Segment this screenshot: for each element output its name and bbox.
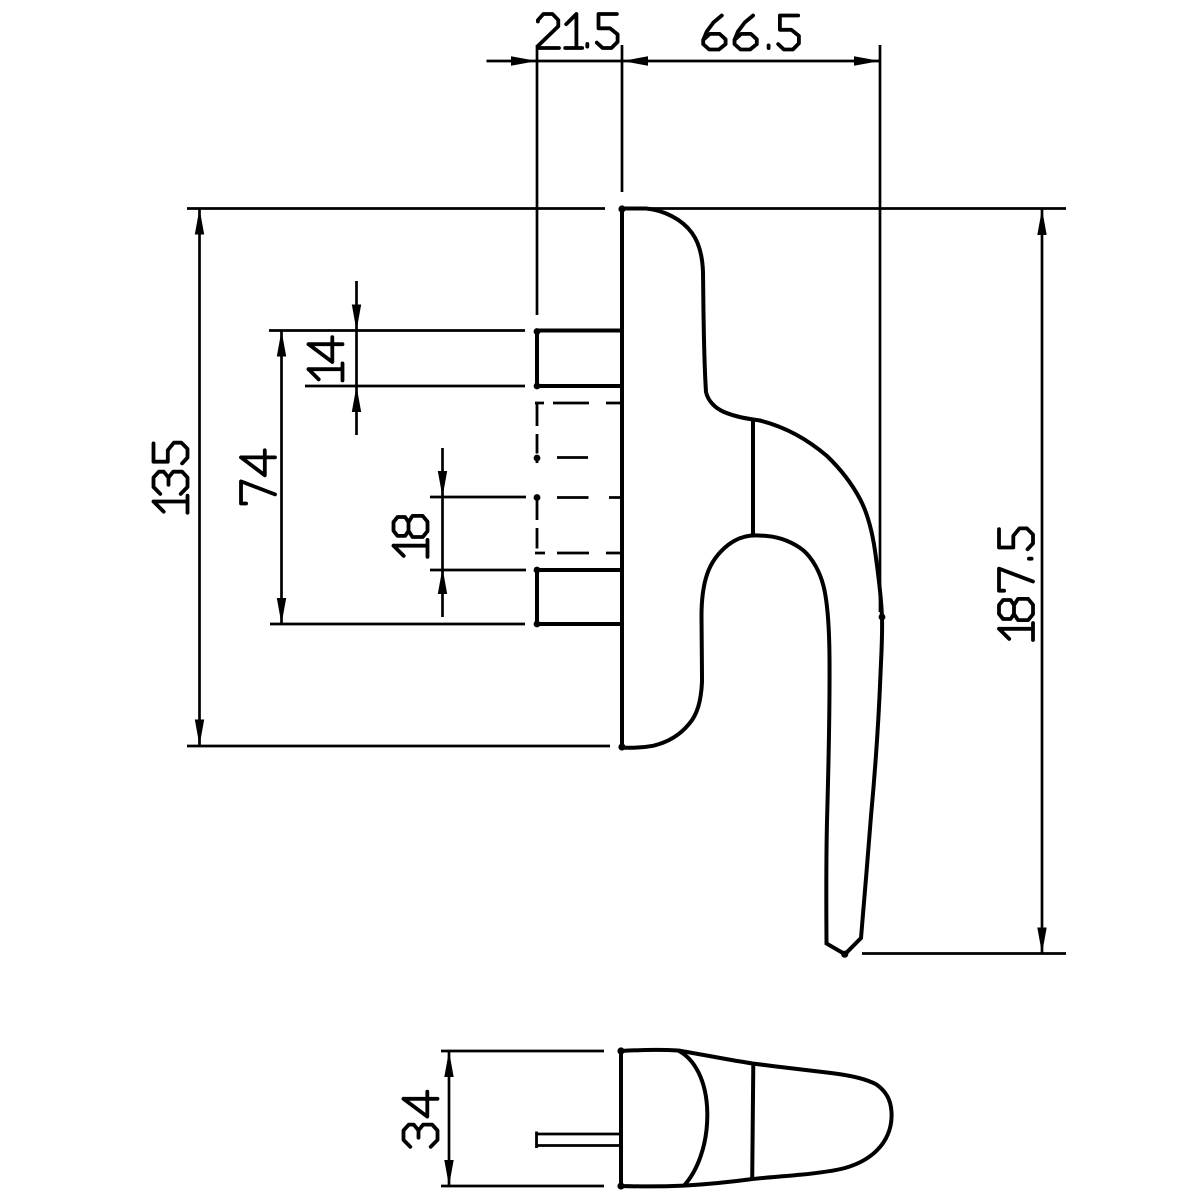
hidden dashed vertical x=537 lower [536, 458, 539, 549]
junction dot bottom view bottom [617, 1182, 624, 1189]
junction dot boss y570 [534, 567, 541, 574]
arrow 74 bottom [277, 598, 286, 624]
arrow 74 top [277, 331, 286, 357]
dimension 14 label [309, 337, 343, 380]
junction dot plate top-left [618, 205, 625, 212]
dimension 74 label [241, 450, 275, 503]
arrow 18 bottom outside [438, 568, 447, 594]
dimension 135 label [154, 443, 188, 513]
extension line y=208.5 right [624, 207, 1066, 210]
junction dot handle tip [841, 951, 848, 958]
dimension line 74 x=281.5 [280, 331, 283, 625]
junction dot bottom view top [617, 1047, 624, 1054]
dimension 18 label [394, 516, 428, 557]
hidden dashed vertical x=537 upper [536, 404, 539, 454]
arrow at x880 pointing right [854, 56, 880, 65]
junction dot boss y497 [534, 494, 541, 501]
arrow 34 top [444, 1051, 453, 1077]
dimension 34 label [404, 1092, 438, 1147]
arrow 135 top [195, 209, 204, 235]
extension line y=497 left [430, 496, 526, 499]
junction dot plate bottom-left [618, 743, 625, 750]
extension line y=953.5 [862, 952, 1066, 955]
junction dot boss y331 [534, 328, 541, 335]
arrow at x622 pointing left [622, 56, 648, 65]
junction dot boss y458 [534, 455, 541, 462]
extension line y=1186 [441, 1185, 604, 1188]
bottom view spindle tab cap [535, 1132, 538, 1149]
arrow 34 bottom [444, 1160, 453, 1186]
extension line y=570 left [430, 569, 526, 572]
dimension line 14 x=356.5 [355, 281, 358, 435]
spindle boss line y=386 [305, 385, 525, 388]
neck joint line x=753 [751, 421, 755, 535]
arrow 135 bottom [195, 720, 204, 746]
arrow 14 top outside [352, 305, 361, 331]
arrow 187.5 bottom [1037, 928, 1046, 954]
dimension line 187.5 x=1042 [1041, 209, 1044, 954]
arrow 18 top outside [438, 471, 447, 497]
bottom view collar arc [678, 1051, 707, 1186]
arrow at x537 pointing right [511, 56, 537, 65]
spindle boss top edge y=330.5 [269, 329, 525, 332]
extension line x=537 top [536, 45, 539, 315]
dimension line 135 x=199.5 [198, 209, 201, 746]
extension line x=622 top [621, 45, 624, 192]
extension line y=208.5 left [187, 207, 605, 210]
dimension 187.5 label [999, 528, 1033, 640]
hidden dashed line y=403 [535, 402, 622, 405]
dimension line 18 x=442.5 [441, 448, 444, 617]
hidden dashed line y=497 [557, 496, 622, 499]
boss tab left edge x=537 bottom [535, 570, 539, 624]
arrow 187.5 top [1037, 209, 1046, 235]
dimension 21.5 label [538, 14, 618, 48]
extension line y=1051 [441, 1050, 604, 1053]
arrow 14 bottom outside [352, 386, 361, 412]
bottom view spindle tab top [537, 1133, 622, 1136]
spindle boss bottom edge y=624 [270, 623, 525, 626]
extension line y=746 [187, 745, 610, 748]
boss tab left edge x=537 top [535, 331, 539, 387]
junction dot boss y386 [534, 383, 541, 390]
junction dot boss y624 [534, 621, 541, 628]
bottom view grip boundary line [752, 1064, 753, 1180]
handle side view outline [622, 209, 882, 955]
hidden dashed line y=553 [535, 552, 622, 555]
bottom view outline [621, 1050, 892, 1186]
extension line x=880 [879, 45, 882, 612]
dimension 66.5 label [703, 16, 799, 50]
bottom view spindle tab bottom [537, 1144, 622, 1147]
hidden dash y=457.5 [557, 456, 588, 459]
dimension line top y=61 [487, 60, 881, 63]
junction dot handle curve [879, 614, 886, 621]
dimension line 34 x=449 [448, 1051, 451, 1186]
spindle boss line y=570 [537, 568, 622, 572]
